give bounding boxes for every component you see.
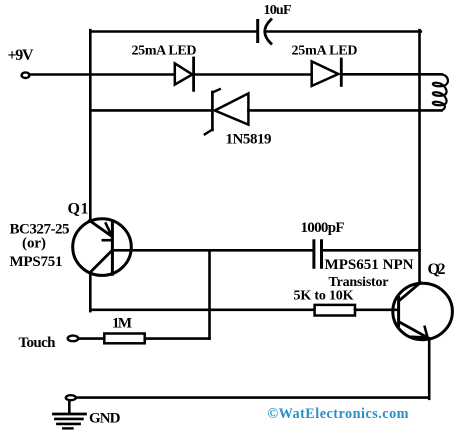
svg-text:Q1: Q1	[68, 201, 89, 218]
svg-text:1N5819: 1N5819	[226, 131, 272, 147]
svg-text:MPS751: MPS751	[10, 254, 63, 270]
svg-text:10uF: 10uF	[264, 3, 292, 18]
svg-text:5K to 10K: 5K to 10K	[294, 289, 354, 304]
svg-text:25mA LED: 25mA LED	[292, 44, 358, 59]
svg-text:MPS651 NPN: MPS651 NPN	[325, 257, 414, 273]
svg-text:Touch: Touch	[19, 335, 57, 351]
svg-text:GND: GND	[89, 411, 121, 427]
svg-text:25mA LED: 25mA LED	[132, 44, 197, 59]
svg-text:1000pF: 1000pF	[301, 220, 345, 236]
svg-text:1M: 1M	[112, 316, 132, 332]
svg-text:(or): (or)	[22, 235, 46, 251]
svg-text:©WatElectronics.com: ©WatElectronics.com	[268, 406, 409, 422]
svg-text:Q2: Q2	[428, 261, 446, 278]
svg-text:+9V: +9V	[8, 47, 34, 64]
